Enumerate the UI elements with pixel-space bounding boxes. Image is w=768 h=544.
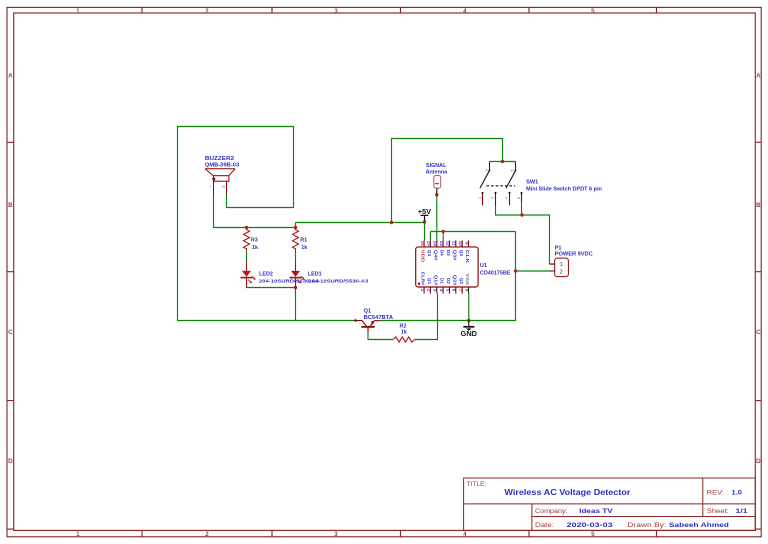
svg-text:Q3: Q3	[459, 250, 464, 257]
svg-text:Q1: Q1	[427, 278, 432, 285]
svg-text:A: A	[756, 73, 761, 80]
svg-text:Sheet:: Sheet:	[707, 508, 729, 515]
svg-text:5: 5	[511, 170, 515, 172]
svg-text:Drawn By:: Drawn By:	[627, 522, 666, 529]
svg-text:QMB-09B-03: QMB-09B-03	[205, 162, 239, 168]
svg-text:N: N	[223, 185, 226, 189]
svg-text:13: 13	[439, 241, 444, 247]
svg-text:4: 4	[463, 531, 467, 538]
svg-text:D4: D4	[440, 250, 445, 256]
svg-text:1: 1	[76, 8, 80, 15]
svg-text:4: 4	[463, 8, 467, 15]
svg-text:1/1: 1/1	[736, 508, 748, 515]
svg-text:204-10SURD/S530-A3: 204-10SURD/S530-A3	[308, 278, 368, 284]
svg-text:2020-03-03: 2020-03-03	[567, 522, 613, 529]
svg-text:14: 14	[433, 241, 438, 247]
svg-text:5: 5	[591, 8, 595, 15]
svg-text:POWER 9VDC: POWER 9VDC	[555, 251, 593, 257]
svg-text:A: A	[8, 73, 13, 80]
svg-text:1: 1	[560, 262, 563, 268]
svg-text:LED2: LED2	[259, 271, 273, 277]
svg-text:VSS: VSS	[465, 273, 470, 285]
svg-text:1k: 1k	[252, 245, 258, 251]
svg-text:15: 15	[426, 241, 431, 247]
svg-text:2: 2	[560, 269, 563, 275]
svg-text:R1: R1	[300, 237, 307, 243]
svg-text:Q1#: Q1#	[433, 275, 438, 286]
svg-text:B: B	[756, 202, 761, 209]
svg-text:C: C	[756, 329, 761, 336]
svg-text:Mini Slide Switch DPDT 6 pin: Mini Slide Switch DPDT 6 pin	[526, 186, 602, 192]
svg-text:3: 3	[334, 531, 338, 538]
svg-text:CD40175BE: CD40175BE	[480, 270, 511, 276]
svg-text:U1: U1	[480, 263, 487, 269]
svg-text:Antenna: Antenna	[426, 169, 449, 175]
svg-text:Q3#: Q3#	[452, 250, 457, 261]
svg-text:11: 11	[452, 241, 457, 246]
svg-text:5: 5	[591, 531, 595, 538]
svg-text:Company:: Company:	[535, 508, 568, 515]
svg-text:Q4: Q4	[427, 250, 432, 257]
svg-text:10: 10	[458, 241, 463, 247]
svg-text:16: 16	[420, 241, 425, 247]
svg-text:CLR#: CLR#	[421, 272, 426, 286]
svg-text:2: 2	[484, 169, 488, 171]
svg-text:Sabeeh Ahmed: Sabeeh Ahmed	[669, 522, 729, 529]
svg-text:1k: 1k	[401, 329, 407, 335]
svg-text:B: B	[8, 202, 13, 209]
svg-text:C: C	[8, 329, 13, 336]
svg-text:BUZZER2: BUZZER2	[205, 156, 234, 162]
svg-text:Wireless AC Voltage Detector: Wireless AC Voltage Detector	[504, 488, 631, 497]
svg-text:Ideas TV: Ideas TV	[579, 508, 613, 515]
svg-text:1: 1	[76, 531, 80, 538]
svg-text:2: 2	[205, 531, 209, 538]
svg-text:Q4#: Q4#	[433, 250, 438, 261]
svg-text:+5V: +5V	[418, 207, 431, 216]
svg-text:1k: 1k	[301, 245, 307, 251]
svg-text:LED1: LED1	[308, 271, 322, 277]
svg-text:CLK: CLK	[465, 250, 470, 264]
svg-text:GND: GND	[461, 331, 478, 338]
svg-text:REV:: REV:	[707, 490, 724, 497]
svg-text:Q2#: Q2#	[452, 275, 457, 286]
svg-text:R3: R3	[251, 237, 258, 243]
svg-text:Date:: Date:	[535, 522, 554, 529]
svg-text:2: 2	[205, 8, 209, 15]
svg-text:6: 6	[517, 197, 521, 199]
svg-text:VDD: VDD	[421, 250, 426, 263]
svg-text:SW1: SW1	[526, 179, 538, 185]
svg-text:4: 4	[504, 197, 508, 199]
svg-text:1: 1	[478, 197, 482, 199]
svg-text:D1: D1	[440, 278, 445, 284]
svg-text:D: D	[8, 458, 13, 465]
svg-text:TITLE:: TITLE:	[467, 481, 487, 488]
svg-text:D2: D2	[446, 278, 451, 284]
svg-text:12: 12	[445, 241, 450, 247]
svg-text:SIGNAL: SIGNAL	[426, 163, 447, 169]
svg-text:+: +	[210, 185, 212, 189]
svg-text:BC547BTA: BC547BTA	[364, 315, 393, 321]
svg-text:D: D	[756, 458, 761, 465]
svg-text:1.0: 1.0	[732, 490, 743, 497]
svg-text:3: 3	[334, 8, 338, 15]
svg-text:Q1: Q1	[364, 309, 371, 315]
svg-text:Q2: Q2	[459, 278, 464, 285]
svg-text:3: 3	[491, 197, 495, 199]
svg-text:D3: D3	[446, 250, 451, 256]
